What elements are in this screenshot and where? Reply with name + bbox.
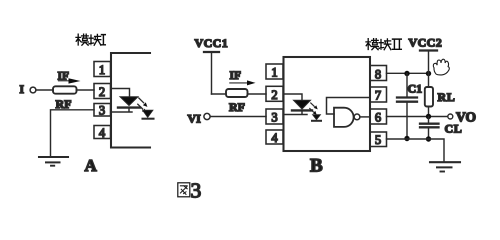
- terminal VO circle: [448, 114, 453, 119]
- svg-text:4: 4: [271, 131, 278, 145]
- wire resistor IF to pin 2 (A): [77, 89, 95, 91]
- light arrow 2 (A): [138, 104, 143, 109]
- svg-text:6: 6: [375, 111, 381, 125]
- svg-text:2: 2: [99, 85, 105, 99]
- pin 1 (B) box: [266, 64, 283, 79]
- svg-text:IF: IF: [230, 70, 242, 82]
- wire VI to pin 3 (B): [210, 116, 266, 118]
- wire enable pin 7 to gate input: [327, 98, 371, 115]
- figure caption 图3: [178, 183, 190, 197]
- light arrow 1 (B): [311, 103, 314, 106]
- wire RL to VO node: [428, 107, 430, 117]
- svg-text:RF: RF: [56, 97, 72, 111]
- svg-text:7: 7: [375, 89, 381, 103]
- junction node VO: [426, 114, 431, 119]
- pin 3 (B) box: [266, 109, 283, 124]
- terminal I circle: [30, 87, 36, 93]
- svg-text:RF: RF: [229, 100, 245, 114]
- wire VO node to CL: [428, 117, 430, 124]
- svg-text:3: 3: [99, 104, 105, 118]
- svg-text:5: 5: [375, 133, 381, 147]
- svg-text:VCC1: VCC1: [195, 36, 229, 50]
- wire CL to ground line: [428, 127, 430, 139]
- capacitor C1: [397, 96, 417, 98]
- svg-text:4: 4: [99, 126, 106, 140]
- wire pin 8 to VCC2 rail: [387, 72, 429, 74]
- wire resistor RF to pin 2 (B): [248, 93, 267, 95]
- hand cursor icon: [433, 59, 449, 75]
- label 模块II (module II title): [366, 39, 401, 50]
- capacitor C1 lead from pin8 rail: [406, 74, 408, 97]
- power rail VCC2: [420, 49, 437, 51]
- svg-text:VI: VI: [188, 112, 202, 126]
- pin 1 (A) box: [94, 62, 111, 77]
- pin 4 (A) box: [94, 126, 111, 139]
- svg-text:3: 3: [271, 111, 277, 125]
- svg-text:8: 8: [375, 68, 381, 82]
- LED D-B (emitting diode): [294, 100, 311, 109]
- wire LED cathode to pin 3 (B): [284, 110, 308, 114]
- light arrow 2 (B): [310, 109, 313, 112]
- wire I terminal to resistor IF: [36, 89, 53, 91]
- pin 7 box: [370, 87, 387, 102]
- svg-text:B: B: [310, 155, 323, 176]
- svg-text:1: 1: [271, 66, 277, 80]
- junction node VCC2: [426, 71, 431, 76]
- ground (A): [39, 156, 68, 158]
- pin 8 box: [370, 66, 387, 81]
- svg-text:3: 3: [191, 179, 202, 203]
- svg-text:I: I: [20, 84, 25, 96]
- junction node CL-bottom: [426, 136, 431, 141]
- terminal VI circle: [204, 113, 210, 119]
- resistor RL: [425, 87, 433, 107]
- ground (B): [430, 161, 460, 163]
- resistor RL lead from VCC2: [428, 74, 430, 88]
- svg-text:1: 1: [99, 63, 105, 77]
- wire VCC1 to resistor RF (B): [212, 93, 227, 95]
- junction node C1-top: [404, 71, 409, 76]
- svg-text:A: A: [85, 156, 98, 175]
- IC box U-A (open right side): [111, 53, 150, 148]
- wire pin2 (B) to LED anode: [284, 94, 303, 100]
- capacitor C1 lead to ground line: [406, 103, 408, 140]
- svg-text:VCC2: VCC2: [409, 36, 443, 50]
- current arrow IF (B): [230, 82, 248, 84]
- wire pin 3 (A) to ground: [51, 110, 95, 157]
- photodiode (A): [143, 110, 154, 117]
- pin 2 (A) box: [94, 84, 111, 99]
- gate U-B NAND: [334, 108, 354, 127]
- IC box U-B: [284, 57, 371, 151]
- capacitor CL: [420, 123, 439, 125]
- resistor IF (A): [53, 86, 77, 93]
- pin 3 (A) box: [94, 104, 111, 117]
- light arrow 1 (A): [139, 98, 144, 103]
- pin 4 (B) box: [266, 130, 283, 144]
- resistor RF (B): [226, 89, 248, 97]
- pin 6 box: [370, 109, 387, 124]
- wire pin2 (A) to LED anode: [111, 89, 130, 97]
- gate output bubble: [354, 114, 360, 120]
- wire pin 6 to VO terminal: [387, 116, 448, 118]
- wire pin 5 to ground: [387, 139, 445, 162]
- pin 5 box: [370, 132, 387, 147]
- svg-text:RL: RL: [438, 90, 456, 104]
- photodiode (B): [313, 115, 321, 120]
- svg-text:C1: C1: [408, 82, 423, 96]
- power rail VCC1: [204, 51, 219, 53]
- current arrow IF (A): [59, 80, 70, 82]
- junction node C1-bottom: [404, 136, 409, 141]
- pin 2 (B) box: [266, 86, 283, 101]
- svg-text:CL: CL: [445, 122, 463, 136]
- LED D-A (emitting diode): [120, 97, 138, 106]
- label 模块I (module I title): [76, 34, 105, 45]
- wire LED cathode to pin 3 (A): [111, 108, 132, 112]
- wire gate output to pin 6: [360, 116, 370, 118]
- svg-text:2: 2: [271, 88, 277, 102]
